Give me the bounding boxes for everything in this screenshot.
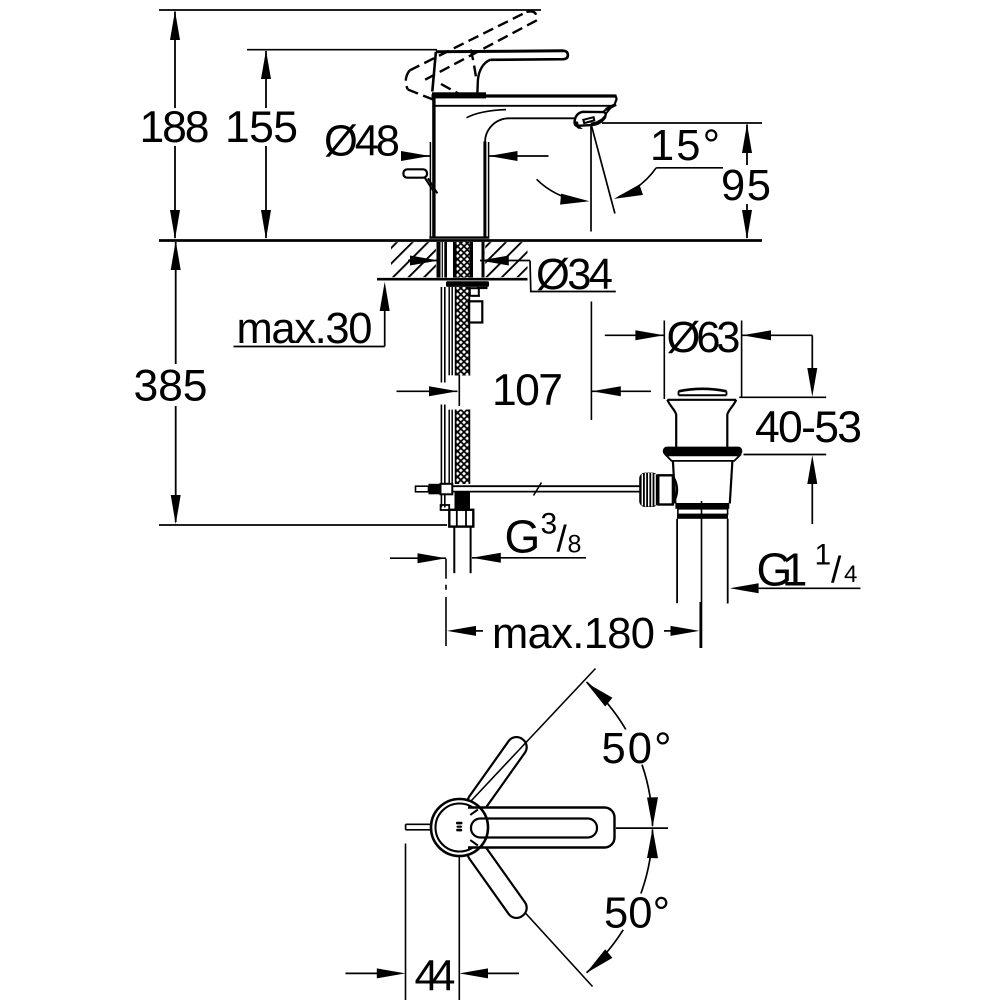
faucet circle body (white disc)	[432, 800, 487, 855]
svg-text:3: 3	[541, 507, 558, 540]
top reference line (raised handle level)	[159, 9, 541, 11]
handle corner ticks	[470, 810, 478, 815]
faucet top plate	[432, 94, 616, 97]
faucet handle (lever, horizontal)	[436, 51, 564, 52]
handle shadow band	[432, 92, 486, 98]
label max.30	[234, 282, 390, 347]
deck top line	[159, 239, 762, 242]
knob connector	[658, 475, 673, 504]
waste centerline	[701, 501, 703, 648]
dimension 107	[397, 302, 652, 421]
hose centerline tick	[458, 375, 460, 407]
knurled adjusting knob	[639, 473, 658, 507]
dimension 188	[170, 11, 180, 239]
G3/8 connector stack	[449, 492, 473, 573]
385 bottom reference line	[159, 524, 447, 526]
mounting washer and nut	[446, 281, 489, 287]
dimension 048	[401, 142, 549, 237]
dimension 44	[346, 844, 520, 1000]
boss arc	[673, 476, 677, 504]
rod left clamp	[429, 484, 441, 495]
dimension 40-53	[739, 335, 826, 524]
handle top view (horizontal)	[462, 808, 615, 848]
rotated handle upper (50 deg)	[464, 733, 531, 816]
FAUCET BODY	[403, 11, 616, 237]
waste O-ring seal	[663, 447, 743, 456]
svg-text:Ø48: Ø48	[324, 118, 400, 166]
50 deg line upper (over handle)	[471, 669, 596, 802]
dimension 95	[602, 123, 762, 239]
svg-text:1: 1	[815, 539, 832, 572]
faucet circle outer	[431, 799, 488, 856]
waste plug cap	[679, 389, 727, 392]
TOP VIEW	[406, 669, 615, 987]
aerator	[574, 112, 605, 126]
dimension 063	[605, 321, 813, 400]
svg-text:max.30: max.30	[237, 305, 373, 353]
svg-text:Ø63: Ø63	[667, 314, 741, 362]
handle raised position (dashed)	[406, 11, 537, 101]
svg-text:155: 155	[225, 103, 298, 152]
label G1 1/4 with arrow	[730, 583, 861, 593]
dimension 034	[408, 256, 616, 292]
waste tailpipe	[676, 519, 678, 603]
spout underside	[509, 117, 575, 119]
svg-text:44: 44	[415, 953, 456, 1000]
GROHE logo mark	[456, 822, 463, 832]
dimension 155	[261, 50, 271, 239]
BELOW-DECK MOUNTING	[436, 242, 489, 510]
svg-text:40-53: 40-53	[755, 403, 862, 452]
faucet base	[429, 236, 489, 238]
top view centerline	[616, 827, 668, 829]
rotated handle lower (50 deg)	[464, 839, 531, 922]
50 degree arc upper	[586, 682, 658, 827]
deck bottom line	[377, 278, 528, 281]
label G3/8 with arrows	[390, 553, 586, 646]
15 degree stream lines	[537, 125, 723, 232]
faucet body column	[432, 98, 435, 237]
dimension 385	[171, 241, 181, 524]
dimension max.180	[447, 602, 700, 648]
svg-text:15°: 15°	[650, 122, 720, 170]
svg-text:95: 95	[721, 162, 771, 210]
svg-text:107: 107	[492, 366, 563, 415]
svg-text:50°: 50°	[604, 890, 670, 938]
faucet circle inner	[436, 804, 484, 852]
svg-text:8: 8	[568, 530, 582, 558]
threaded shank stripes through deck	[436, 242, 485, 278]
handle slot	[471, 819, 597, 838]
waste trumpet flange	[667, 399, 736, 401]
second reference line (handle level 155)	[247, 49, 437, 51]
SIDE VIEW	[159, 10, 762, 279]
deck slab hatching	[391, 242, 528, 277]
pull rod guide tube below deck	[448, 287, 450, 375]
flexible hose (braided)	[456, 287, 470, 484]
spout tip stub (top view)	[406, 824, 436, 830]
svg-text:4: 4	[844, 561, 857, 588]
POP-UP WASTE ASSEMBLY	[639, 389, 742, 648]
svg-text:G: G	[505, 511, 541, 563]
pull rod below deck	[440, 287, 442, 383]
svg-text:50°: 50°	[602, 725, 672, 773]
svg-text:/: /	[831, 550, 842, 591]
svg-text:188: 188	[140, 103, 210, 152]
pop-up rod lever	[424, 177, 434, 193]
svg-text:Ø34: Ø34	[536, 251, 613, 299]
horizontal pop-up actuating rod	[416, 483, 641, 496]
svg-text:385: 385	[134, 362, 208, 411]
svg-text:/: /	[557, 519, 568, 560]
body transition curve	[467, 110, 507, 118]
svg-text:max.180: max.180	[492, 610, 655, 658]
50 deg line lower (behind handle)	[472, 855, 593, 987]
svg-text:G1: G1	[757, 543, 808, 595]
waste flange below seal	[666, 455, 740, 461]
waste body bands	[675, 503, 729, 509]
pop-up rod lever knob	[403, 169, 427, 177]
rod guide bracket	[470, 288, 479, 296]
50 degree arc lower	[586, 828, 658, 973]
waste body	[673, 461, 676, 504]
